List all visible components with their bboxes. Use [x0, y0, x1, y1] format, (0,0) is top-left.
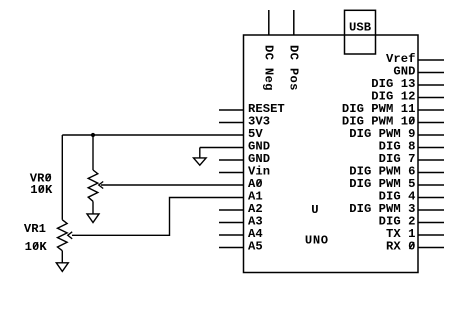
svg-text:UNO: UNO — [305, 234, 328, 248]
svg-text:10K: 10K — [25, 240, 48, 254]
svg-text:USB: USB — [349, 21, 372, 35]
svg-text:VR1: VR1 — [24, 222, 46, 236]
svg-text:DC Neg: DC Neg — [262, 45, 276, 91]
svg-text:U: U — [311, 203, 318, 217]
svg-text:A5: A5 — [248, 240, 263, 254]
svg-text:10K: 10K — [30, 183, 53, 197]
svg-text:DC Pos: DC Pos — [287, 45, 301, 91]
